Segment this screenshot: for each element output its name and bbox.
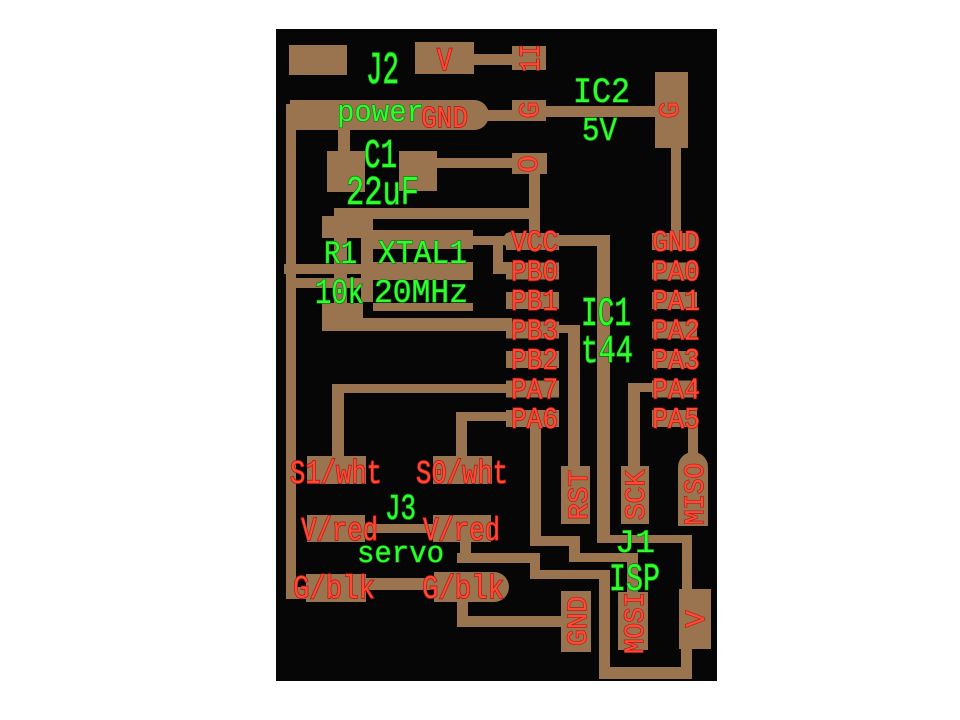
svg-text:RST: RST <box>565 470 596 520</box>
svg-text:S0/wht: S0/wht <box>416 455 508 493</box>
svg-text:MISO: MISO <box>681 463 712 525</box>
svg-text:J3: J3 <box>385 490 416 530</box>
svg-text:V: V <box>682 610 713 627</box>
svg-text:G/blk: G/blk <box>422 572 504 609</box>
svg-text:J2: J2 <box>366 47 399 98</box>
svg-text:G: G <box>656 102 687 119</box>
svg-text:IC2: IC2 <box>573 74 630 114</box>
svg-text:power: power <box>337 95 424 130</box>
svg-text:MOSI: MOSI <box>621 592 652 654</box>
svg-text:GND: GND <box>564 596 595 646</box>
svg-text:SCK: SCK <box>622 470 653 520</box>
svg-text:V/red: V/red <box>301 512 378 550</box>
svg-text:20MHz: 20MHz <box>374 274 468 312</box>
svg-text:O: O <box>515 156 546 173</box>
svg-text:V/red: V/red <box>423 512 500 550</box>
svg-text:10k: 10k <box>315 275 364 314</box>
svg-text:J1: J1 <box>615 526 655 562</box>
svg-text:5V: 5V <box>582 113 617 150</box>
svg-text:GND: GND <box>421 101 468 136</box>
svg-text:1I: 1I <box>515 44 548 72</box>
svg-text:G: G <box>516 102 547 119</box>
svg-text:S1/wht: S1/wht <box>290 455 382 493</box>
svg-text:R1: R1 <box>324 236 357 272</box>
svg-text:PA5: PA5 <box>652 402 700 437</box>
svg-text:XTAL1: XTAL1 <box>378 237 467 274</box>
svg-text:t44: t44 <box>581 330 633 374</box>
svg-text:G/blk: G/blk <box>293 572 375 609</box>
svg-text:V: V <box>437 43 453 80</box>
svg-text:PA6: PA6 <box>511 402 558 437</box>
svg-text:22uF: 22uF <box>346 170 419 216</box>
